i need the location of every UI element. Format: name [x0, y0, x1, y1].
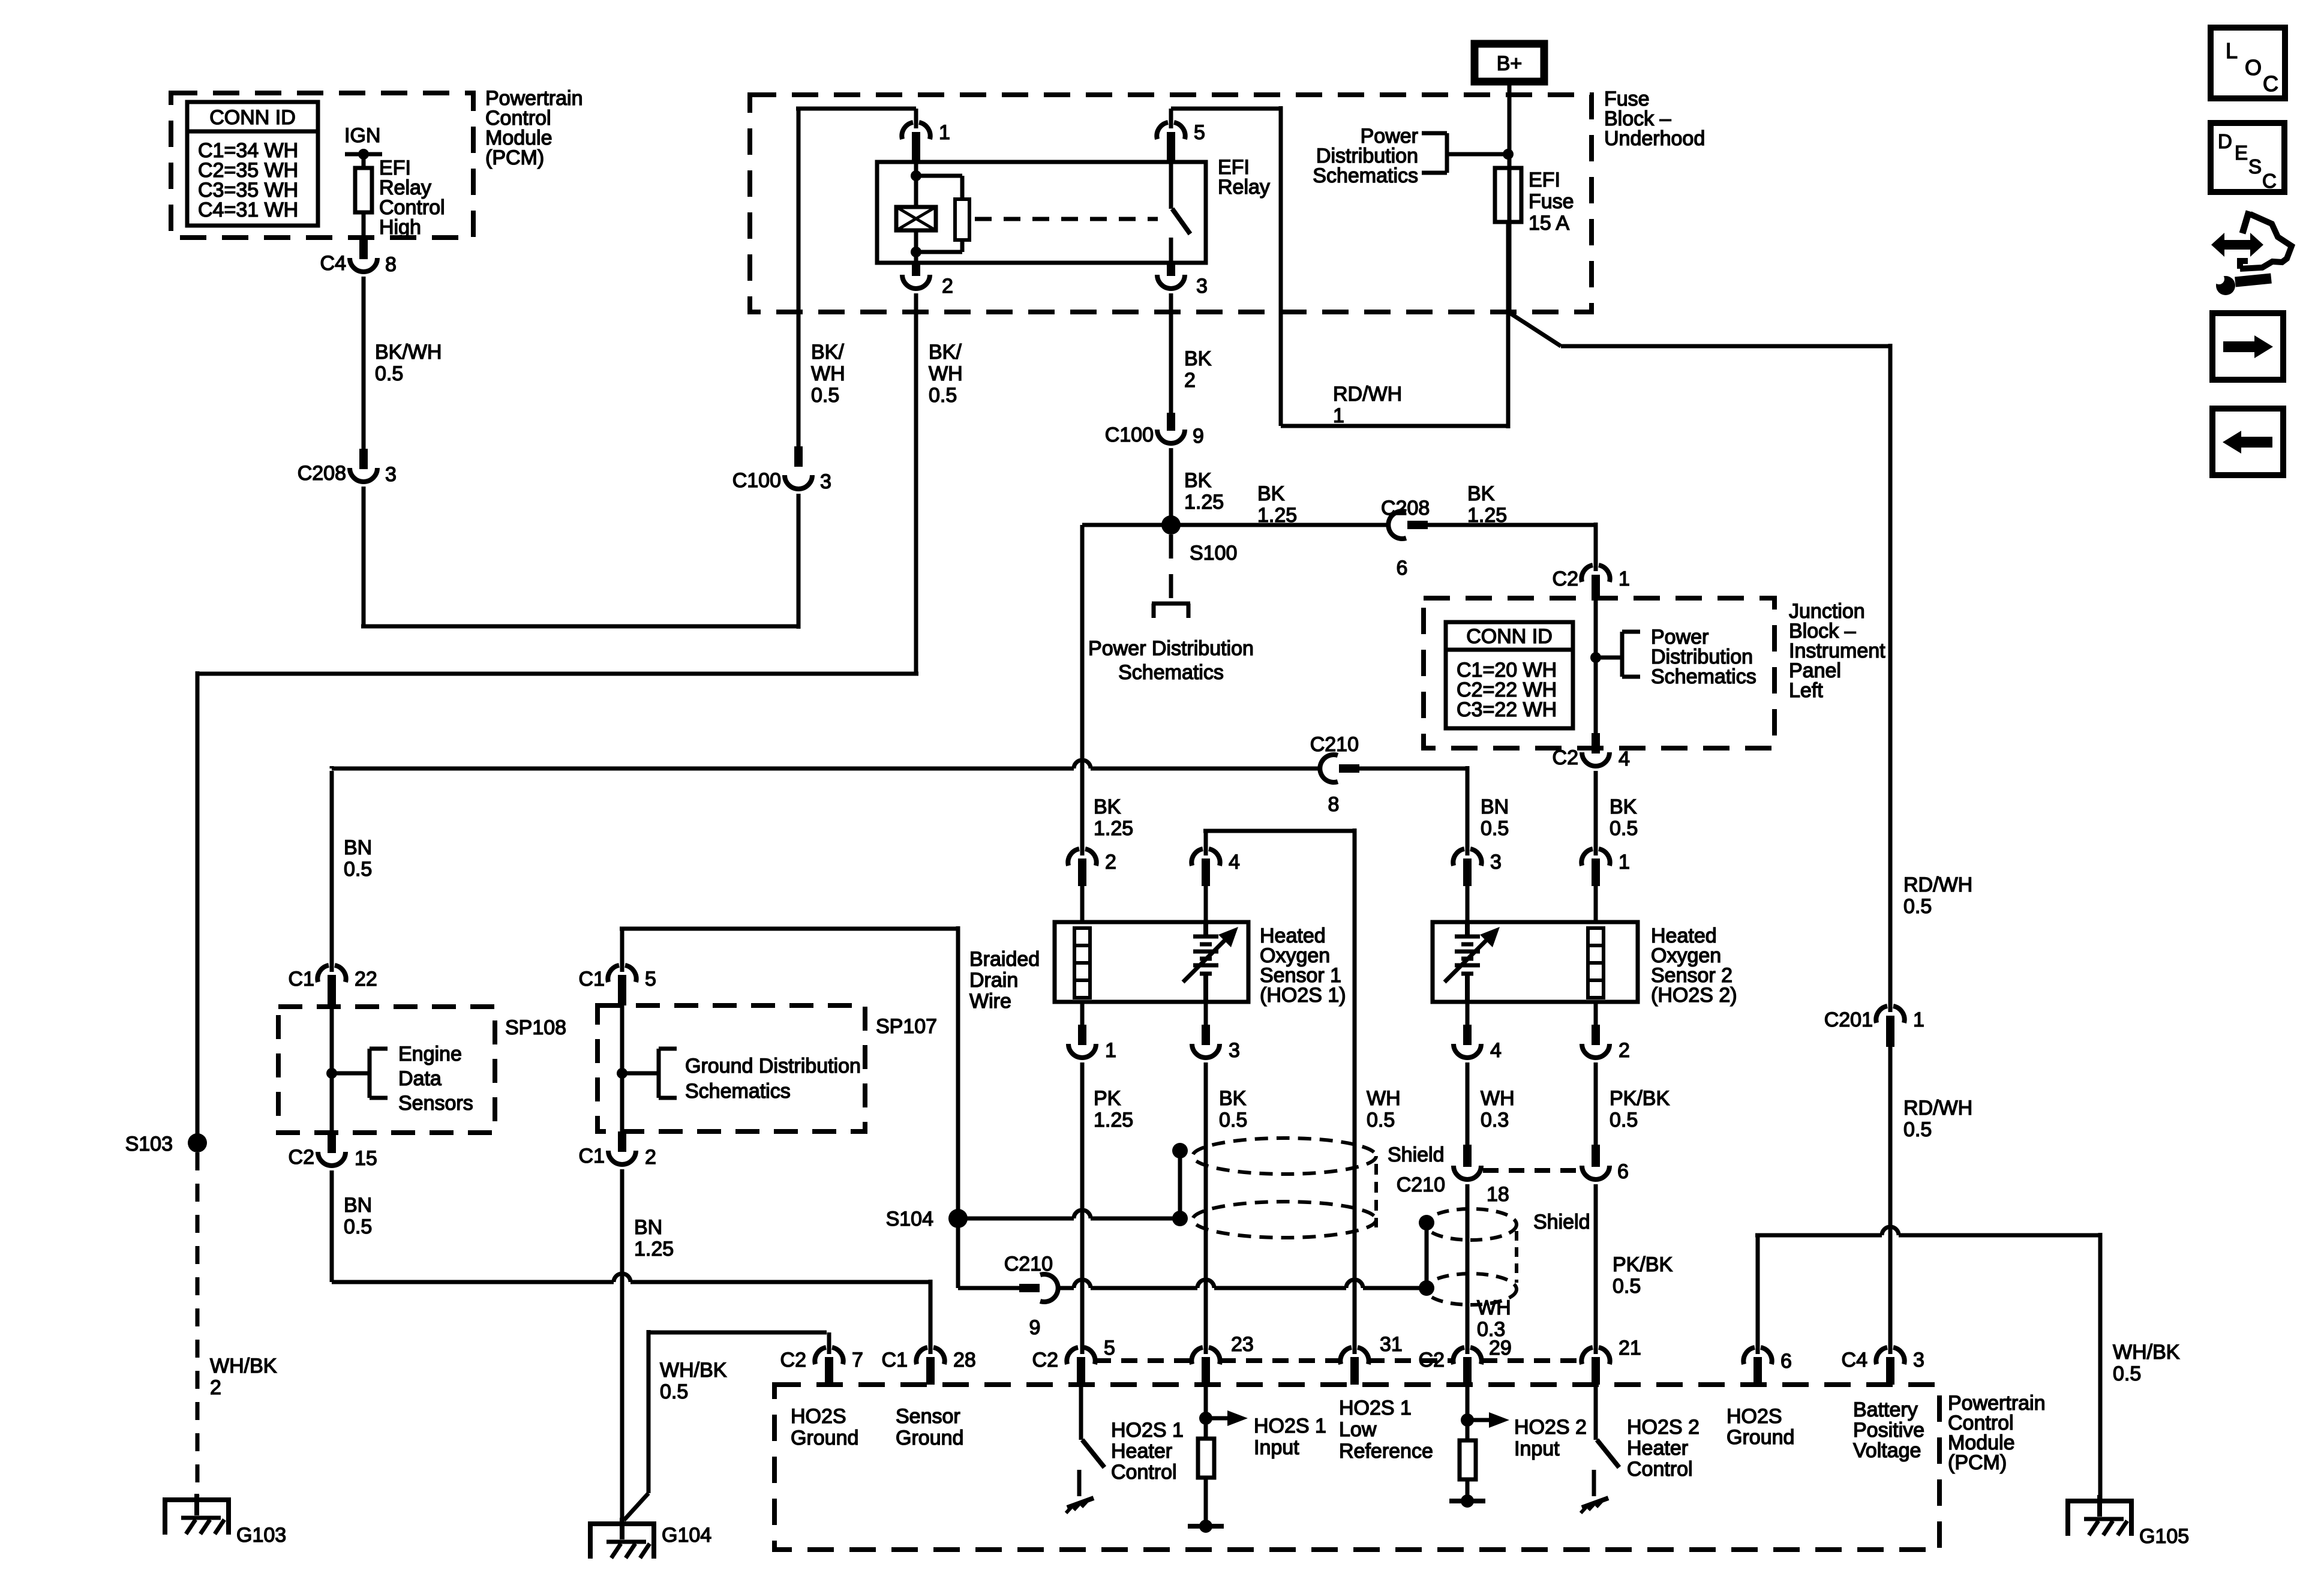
- svg-text:C210: C210: [1004, 1253, 1053, 1275]
- dashed connector line C2: [1095, 1358, 1582, 1363]
- HO2S1 pin 2: [1068, 525, 1133, 922]
- svg-text:D: D: [2218, 130, 2232, 152]
- svg-text:HO2S 1: HO2S 1: [1111, 1419, 1184, 1442]
- PCM pin 6 HO2S Ground: [1727, 1347, 1794, 1449]
- svg-text:4: 4: [1229, 851, 1240, 873]
- svg-text:S103: S103: [125, 1133, 173, 1155]
- svg-text:9: 9: [1193, 425, 1204, 448]
- svg-text:23: 23: [1231, 1333, 1254, 1356]
- svg-text:0.5: 0.5: [1610, 1109, 1638, 1131]
- connector C210 pin 18: [1397, 1145, 1511, 1354]
- svg-text:C100: C100: [1105, 424, 1154, 446]
- CONN ID table (PCM): [187, 102, 318, 226]
- svg-text:HO2S 2: HO2S 2: [1514, 1416, 1587, 1439]
- fuse EFI Fuse 15A: [1495, 168, 1574, 235]
- HO2S2 pin 1: [1581, 771, 1630, 922]
- wire BK/WH 0.5 (C4-8 to C208-3): [364, 277, 442, 449]
- svg-text:22: 22: [355, 968, 377, 990]
- braided drain wire (C1-5 to S104): [620, 926, 1040, 1143]
- svg-text:HO2S: HO2S: [1727, 1405, 1782, 1428]
- wire (relay pin5 feed): [1171, 106, 1508, 428]
- svg-text:C1: C1: [579, 1145, 605, 1167]
- HO2S2 pin 3: [1453, 769, 1502, 922]
- svg-text:2: 2: [942, 275, 953, 298]
- svg-text:C: C: [2263, 71, 2278, 96]
- svg-text:1.25: 1.25: [1467, 504, 1507, 527]
- svg-text:(HO2S 2): (HO2S 2): [1651, 984, 1737, 1007]
- connector C2 pin 15: [289, 1133, 377, 1170]
- svg-text:BK: BK: [1094, 795, 1121, 818]
- shield (HO2S 1) dashed cylinder: [1193, 1138, 1376, 1238]
- wire BN 0.5 (C2-15 to C1-28): [332, 1170, 930, 1354]
- svg-text:WH: WH: [1477, 1296, 1511, 1319]
- S100 dashed stub to power distribution: [1152, 535, 1190, 618]
- wire B+ to fuse: [1508, 82, 1512, 171]
- svg-text:Reference: Reference: [1339, 1440, 1433, 1463]
- splice S100: [1161, 515, 1237, 565]
- svg-text:21: 21: [1619, 1337, 1641, 1359]
- svg-text:2: 2: [645, 1146, 656, 1169]
- connector C210 pin 9: [1004, 1253, 1058, 1339]
- svg-text:PK: PK: [1094, 1087, 1121, 1110]
- svg-text:1: 1: [1913, 1008, 1924, 1031]
- svg-text:S100: S100: [1190, 542, 1237, 565]
- svg-text:WH/BK: WH/BK: [2113, 1341, 2180, 1364]
- icon diagnostic (arrows and wrench): [2211, 211, 2292, 295]
- dashed link C210 pins: [1483, 1168, 1578, 1173]
- wire BN 1.25 (C1-2 to G104): [622, 1169, 674, 1521]
- connector C100 pin 3: [732, 446, 831, 493]
- svg-text:Ground Distribution: Ground Distribution: [685, 1055, 861, 1077]
- relay coil parallel resistor: [916, 176, 969, 252]
- connector C201 pin 1: [1824, 1006, 1924, 1354]
- svg-text:3: 3: [820, 470, 831, 493]
- svg-text:0.5: 0.5: [2113, 1362, 2141, 1385]
- svg-text:0.5: 0.5: [344, 1215, 372, 1238]
- svg-text:BK: BK: [1257, 482, 1285, 505]
- svg-text:WH: WH: [811, 362, 845, 385]
- svg-text:2: 2: [1619, 1039, 1630, 1062]
- svg-text:28: 28: [953, 1349, 976, 1371]
- label RD/WH 0.5 (upper): [1903, 873, 1972, 918]
- svg-text:Battery: Battery: [1853, 1398, 1918, 1421]
- svg-text:0.5: 0.5: [1481, 817, 1509, 840]
- wire RD/WH (fuse to right riser): [1508, 222, 1890, 1012]
- svg-text:0.5: 0.5: [1610, 817, 1638, 840]
- callout Ground Distribution Schematics: [622, 1049, 861, 1103]
- svg-text:1: 1: [1619, 851, 1630, 873]
- svg-text:9: 9: [1029, 1316, 1041, 1339]
- svg-text:Control: Control: [1111, 1461, 1177, 1484]
- connector C1 pin 5: [579, 929, 656, 1005]
- svg-text:HO2S: HO2S: [791, 1405, 846, 1428]
- switch HO2S2 heater control: [1581, 1385, 1700, 1513]
- connector C208 pin 3: [298, 449, 397, 486]
- svg-text:C1: C1: [579, 968, 605, 990]
- splice S103: [125, 1133, 207, 1155]
- Fuse Block - Underhood dashed box: [750, 95, 1592, 312]
- svg-text:High: High: [379, 216, 421, 239]
- svg-text:3: 3: [1229, 1039, 1240, 1062]
- EFI Relay box: [877, 162, 1206, 263]
- wire (relay pin2 long run to S103): [197, 293, 963, 1143]
- HO2S1 heater element: [1074, 928, 1090, 998]
- drain wire to C210-9: [958, 1218, 1019, 1288]
- svg-text:1: 1: [939, 121, 950, 144]
- svg-text:0.5: 0.5: [1613, 1275, 1641, 1298]
- svg-text:Positive: Positive: [1853, 1419, 1924, 1442]
- HO2S2 heater element: [1588, 928, 1604, 998]
- svg-text:8: 8: [1328, 793, 1340, 816]
- svg-text:C3=22 WH: C3=22 WH: [1457, 698, 1557, 721]
- svg-text:C2: C2: [1553, 568, 1578, 590]
- svg-text:4: 4: [1490, 1039, 1502, 1062]
- svg-text:2: 2: [1105, 851, 1116, 873]
- svg-text:(HO2S 1): (HO2S 1): [1260, 984, 1346, 1007]
- svg-text:Power Distribution: Power Distribution: [1088, 637, 1254, 660]
- svg-text:BK: BK: [1219, 1087, 1247, 1110]
- svg-text:3: 3: [1196, 275, 1208, 298]
- HO2S 2 box: [1433, 922, 1638, 1002]
- svg-text:Sensor: Sensor: [896, 1405, 960, 1428]
- wire BK 2 (relay pin3 to C100-9): [1171, 293, 1212, 413]
- svg-text:WH/BK: WH/BK: [660, 1359, 727, 1382]
- label WH 0.5 (low reference wire): [1367, 1087, 1401, 1131]
- switch HO2S1 heater control: [1066, 1385, 1184, 1513]
- PCM pin C1-28 Sensor Ground: [882, 1347, 976, 1449]
- svg-text:IGN: IGN: [344, 124, 380, 147]
- wire WH/BK 2 (S103 to G103, dashed): [197, 1152, 277, 1496]
- svg-text:1.25: 1.25: [1184, 491, 1224, 514]
- svg-text:0.5: 0.5: [375, 362, 403, 385]
- svg-text:1: 1: [1333, 404, 1344, 427]
- svg-text:BK/: BK/: [929, 341, 962, 364]
- svg-text:C2: C2: [289, 1146, 314, 1169]
- svg-text:6: 6: [1617, 1160, 1629, 1183]
- svg-text:WH/BK: WH/BK: [210, 1355, 277, 1377]
- svg-text:1: 1: [1619, 568, 1630, 590]
- svg-text:0.5: 0.5: [1903, 895, 1932, 918]
- svg-text:SP108: SP108: [505, 1016, 566, 1039]
- svg-text:HO2S 2: HO2S 2: [1627, 1416, 1700, 1439]
- relay pin 3: [1157, 263, 1208, 298]
- svg-text:EFI: EFI: [1529, 169, 1560, 191]
- svg-text:WH: WH: [929, 362, 963, 385]
- splice S104: [886, 1143, 968, 1230]
- svg-text:CONN ID: CONN ID: [209, 106, 296, 129]
- wire inside junction block: [1590, 598, 1601, 733]
- HO2S2 input resistor network: [1449, 1385, 1587, 1508]
- HO2S2 sensing element: [1445, 922, 1500, 1002]
- svg-text:C2: C2: [1032, 1349, 1058, 1371]
- label Powertrain Control Module (PCM) bottom: [1948, 1392, 2046, 1474]
- svg-text:(PCM): (PCM): [1948, 1451, 2007, 1474]
- svg-text:6: 6: [1397, 557, 1408, 580]
- svg-text:G103: G103: [236, 1524, 286, 1547]
- svg-text:Input: Input: [1514, 1437, 1560, 1460]
- callout Engine Data Sensors: [332, 1043, 473, 1115]
- svg-text:BK/: BK/: [811, 341, 844, 364]
- PCM pin 31 HO2S1 Low Reference: [1339, 1333, 1433, 1463]
- svg-text:HO2S 1: HO2S 1: [1339, 1397, 1412, 1419]
- connector C210 pin 8: [1310, 733, 1359, 816]
- label Shield (HO2S1): [1388, 1143, 1445, 1166]
- svg-text:0.3: 0.3: [1481, 1109, 1509, 1131]
- svg-text:1.25: 1.25: [1094, 817, 1133, 840]
- ground G105: [2065, 1495, 2189, 1548]
- svg-text:C4: C4: [1842, 1349, 1867, 1371]
- PCM pin 23 HO2S1 Input: [1191, 1333, 1253, 1385]
- svg-text:C100: C100: [732, 469, 781, 492]
- svg-text:C4: C4: [320, 252, 346, 275]
- wire BK 1.25 (C100-9 to S100): [1171, 448, 1224, 525]
- wire BK/WH 0.5 (C208-3 to C100-3): [361, 341, 845, 629]
- icon DESC box: [2211, 123, 2284, 192]
- svg-text:0.5: 0.5: [1219, 1109, 1247, 1131]
- svg-text:BN: BN: [634, 1216, 662, 1239]
- relay actuation dashed link: [975, 217, 1158, 221]
- svg-text:WH: WH: [1481, 1087, 1515, 1110]
- svg-text:BK: BK: [1467, 482, 1495, 505]
- PCM pin 21 HO2S2 Heater Control: [1581, 1337, 1641, 1385]
- label Fuse Block - Underhood: [1604, 88, 1705, 150]
- svg-text:WH: WH: [1367, 1087, 1401, 1110]
- PCM pin C2-5 HO2S1 Heater Control: [1032, 1337, 1115, 1385]
- label Powertrain Control Module (PCM): [485, 87, 583, 169]
- svg-text:C1: C1: [289, 968, 314, 990]
- svg-text:6: 6: [1780, 1350, 1792, 1373]
- svg-text:C2: C2: [780, 1349, 806, 1371]
- connector C1 pin 2: [579, 1131, 656, 1169]
- svg-text:Ground: Ground: [791, 1427, 858, 1449]
- relay switch: [1171, 162, 1190, 263]
- HO2S1 pin 4: [1191, 828, 1355, 1354]
- svg-text:(PCM): (PCM): [485, 146, 544, 169]
- svg-text:Ground: Ground: [896, 1427, 963, 1449]
- svg-text:C210: C210: [1397, 1173, 1445, 1196]
- svg-text:3: 3: [1913, 1349, 1924, 1371]
- wire inside SP107: [617, 1005, 627, 1131]
- CONN ID table (junction block): [1446, 622, 1573, 728]
- label RD/WH 1: [1333, 383, 1402, 427]
- connector C208 pin 6: [1381, 497, 1430, 580]
- svg-text:18: 18: [1487, 1183, 1509, 1206]
- svg-text:3: 3: [1490, 851, 1502, 873]
- svg-text:S: S: [2248, 155, 2262, 178]
- wire pin6 to G105: [1755, 1227, 2180, 1499]
- svg-text:8: 8: [385, 253, 397, 276]
- svg-text:C208: C208: [1381, 497, 1430, 520]
- svg-text:CONN ID: CONN ID: [1466, 625, 1553, 648]
- terminal B+: [1475, 44, 1544, 82]
- svg-text:Relay: Relay: [1218, 176, 1270, 199]
- svg-text:4: 4: [1619, 748, 1630, 770]
- node IGN: [344, 124, 382, 160]
- svg-text:BN: BN: [1481, 795, 1509, 818]
- svg-text:Input: Input: [1254, 1436, 1299, 1459]
- svg-text:C: C: [2262, 170, 2277, 192]
- Junction Block dashed box: [1424, 598, 1774, 748]
- svg-text:Heater: Heater: [1111, 1440, 1172, 1463]
- svg-text:Low: Low: [1339, 1418, 1377, 1441]
- callout Power Distribution Schematics (fuse): [1313, 125, 1514, 187]
- connector C2 pin 4: [1553, 733, 1630, 770]
- svg-text:15: 15: [355, 1147, 377, 1170]
- svg-text:5: 5: [645, 968, 656, 990]
- label Heated Oxygen Sensor 1 (HO2S 1): [1260, 924, 1346, 1007]
- drain wire to shield 1: [958, 1143, 1188, 1226]
- svg-text:L: L: [2226, 38, 2238, 63]
- HO2S1 input resistor network: [1188, 1385, 1326, 1533]
- label RD/WH 0.5 (lower): [1903, 1097, 1972, 1141]
- svg-text:15 A: 15 A: [1529, 212, 1569, 235]
- svg-text:7: 7: [852, 1349, 863, 1371]
- wire BN 0.5 (C210-8 to HO2S2 pin3): [1359, 766, 1509, 847]
- svg-text:Left: Left: [1789, 679, 1823, 702]
- svg-text:0.5: 0.5: [1367, 1109, 1395, 1131]
- relay pin 2: [902, 263, 953, 298]
- svg-text:1: 1: [1105, 1039, 1116, 1062]
- svg-text:1.25: 1.25: [1094, 1109, 1133, 1131]
- connector C210 pin 6: [1582, 1145, 1673, 1354]
- relay coil: [896, 162, 936, 263]
- HO2S1 sensing element: [1183, 922, 1238, 1002]
- wire S100 right branch: [1171, 482, 1388, 527]
- wire S100 left branch: [1082, 523, 1171, 527]
- svg-text:29: 29: [1489, 1337, 1512, 1359]
- svg-text:BN: BN: [344, 836, 372, 859]
- svg-text:Shield: Shield: [1533, 1211, 1590, 1233]
- HO2S 1 box: [1055, 922, 1248, 1002]
- svg-text:Drain: Drain: [969, 969, 1018, 992]
- svg-text:2: 2: [1184, 369, 1196, 392]
- connector C2 pin 1 (junction block): [1553, 565, 1630, 598]
- label Heated Oxygen Sensor 2 (HO2S 2): [1651, 924, 1737, 1007]
- connector C1 pin 22: [289, 965, 377, 1007]
- svg-text:G104: G104: [662, 1524, 711, 1547]
- svg-text:C1: C1: [882, 1349, 908, 1371]
- svg-text:0.5: 0.5: [1903, 1118, 1932, 1141]
- svg-text:Wire: Wire: [969, 990, 1011, 1013]
- svg-text:Braided: Braided: [969, 948, 1040, 971]
- svg-text:C201: C201: [1824, 1008, 1873, 1031]
- svg-text:1.25: 1.25: [1257, 504, 1297, 527]
- svg-text:Shield: Shield: [1388, 1143, 1445, 1166]
- HO2S2 pin 2: [1582, 1002, 1670, 1145]
- svg-text:BK/WH: BK/WH: [375, 341, 442, 364]
- svg-text:Fuse: Fuse: [1529, 190, 1574, 213]
- svg-text:1.25: 1.25: [634, 1238, 674, 1260]
- icon LOC box: [2211, 28, 2285, 98]
- svg-text:C4=31 WH: C4=31 WH: [198, 199, 298, 221]
- resistor EFI Relay Control High: [355, 154, 445, 239]
- label Junction Block - Instrument Panel Left: [1789, 600, 1885, 702]
- svg-text:Ground: Ground: [1727, 1426, 1794, 1449]
- svg-text:C208: C208: [298, 462, 346, 485]
- icon next arrow box: [2212, 313, 2283, 380]
- HO2S1 pin 3: [1192, 1002, 1247, 1354]
- svg-text:5: 5: [1194, 121, 1205, 144]
- svg-text:0.5: 0.5: [811, 384, 839, 407]
- svg-text:C2: C2: [1419, 1349, 1445, 1371]
- callout Power Distribution Schematics (junction block): [1596, 626, 1756, 688]
- connector C4 pin 8: [320, 239, 397, 276]
- svg-text:Engine: Engine: [398, 1043, 462, 1065]
- PCM (top-left) dashed box: [171, 93, 473, 238]
- shield (HO2S 2) dashed cylinder: [1425, 1209, 1517, 1305]
- svg-text:S104: S104: [886, 1208, 933, 1230]
- svg-text:Control: Control: [1627, 1458, 1693, 1481]
- svg-text:RD/WH: RD/WH: [1903, 1097, 1972, 1119]
- label EFI Relay: [1218, 156, 1270, 199]
- svg-text:5: 5: [1104, 1337, 1115, 1359]
- svg-text:E: E: [2235, 142, 2248, 164]
- svg-text:Schematics: Schematics: [1651, 665, 1756, 688]
- PCM pin C4-3 Battery Positive Voltage: [1842, 1347, 1925, 1462]
- wire BN 0.5 (C1-22 riser & horizontal to C210-8): [332, 760, 1320, 965]
- svg-text:0.5: 0.5: [344, 858, 372, 881]
- svg-text:31: 31: [1380, 1333, 1403, 1356]
- svg-text:Sensors: Sensors: [398, 1092, 473, 1115]
- ground G103: [163, 1494, 286, 1547]
- splice pack SP107 dashed box: [597, 1005, 937, 1131]
- svg-text:RD/WH: RD/WH: [1903, 873, 1972, 896]
- svg-text:BN: BN: [344, 1194, 372, 1217]
- connector C100 pin 9: [1105, 413, 1204, 448]
- svg-text:RD/WH: RD/WH: [1333, 383, 1402, 406]
- svg-text:0.5: 0.5: [929, 384, 957, 407]
- svg-text:C2: C2: [1553, 746, 1578, 769]
- wire BK 0.5 (C2-4 to HO2S2 pin1): [1596, 771, 1638, 847]
- relay pin 5: [1157, 109, 1205, 162]
- svg-text:PK/BK: PK/BK: [1610, 1087, 1670, 1110]
- wire WH/BK 0.5 (C2-7 to G104): [624, 1330, 827, 1520]
- svg-text:BK: BK: [1184, 469, 1212, 492]
- wire inside SP108: [326, 1007, 337, 1133]
- drain wire (C210-9 to shield 2): [1058, 1215, 1434, 1296]
- svg-text:G105: G105: [2139, 1525, 2189, 1548]
- svg-text:Schematics: Schematics: [1313, 164, 1418, 187]
- svg-text:Schematics: Schematics: [1118, 661, 1224, 684]
- wire BK 1.25 (C208-6 to C2-1): [1428, 482, 1596, 571]
- HO2S2 pin 4: [1454, 1002, 1515, 1145]
- label Shield (HO2S2): [1533, 1211, 1590, 1233]
- svg-text:0.5: 0.5: [660, 1380, 688, 1403]
- svg-text:Schematics: Schematics: [685, 1080, 791, 1103]
- svg-text:SP107: SP107: [876, 1015, 937, 1038]
- PCM pin C2-7 HO2S Ground: [780, 1332, 863, 1449]
- ground G104: [588, 1518, 711, 1559]
- svg-text:PK/BK: PK/BK: [1613, 1253, 1673, 1276]
- svg-text:BK: BK: [1610, 795, 1637, 818]
- label Power Distribution Schematics (S100): [1088, 637, 1254, 684]
- svg-text:O: O: [2245, 55, 2262, 80]
- svg-text:Voltage: Voltage: [1853, 1439, 1921, 1462]
- svg-text:2: 2: [210, 1376, 221, 1399]
- svg-text:BK: BK: [1184, 347, 1212, 370]
- svg-text:Data: Data: [398, 1067, 442, 1090]
- svg-text:HO2S 1: HO2S 1: [1254, 1415, 1326, 1437]
- svg-text:3: 3: [385, 463, 397, 486]
- svg-text:C210: C210: [1310, 733, 1359, 756]
- svg-text:B+: B+: [1497, 52, 1523, 75]
- HO2S1 pin 1: [1068, 1002, 1133, 1354]
- relay pin 1: [902, 109, 950, 162]
- PCM (bottom) dashed box: [774, 1385, 1939, 1550]
- svg-text:Heater: Heater: [1627, 1437, 1688, 1460]
- splice pack SP108 dashed box: [278, 1007, 566, 1133]
- svg-text:Underhood: Underhood: [1604, 127, 1705, 150]
